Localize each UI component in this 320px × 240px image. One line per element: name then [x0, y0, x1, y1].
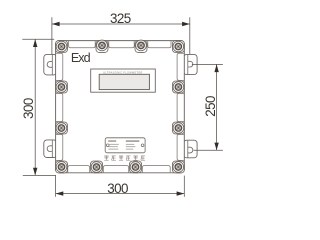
- svg-text:250: 250: [203, 96, 218, 117]
- svg-text:Exd: Exd: [71, 51, 91, 65]
- svg-text:325: 325: [110, 11, 131, 26]
- svg-text:300: 300: [107, 181, 128, 196]
- svg-text:300: 300: [21, 98, 36, 119]
- svg-text:ULTRASONIC FLOWMETER: ULTRASONIC FLOWMETER: [103, 70, 142, 74]
